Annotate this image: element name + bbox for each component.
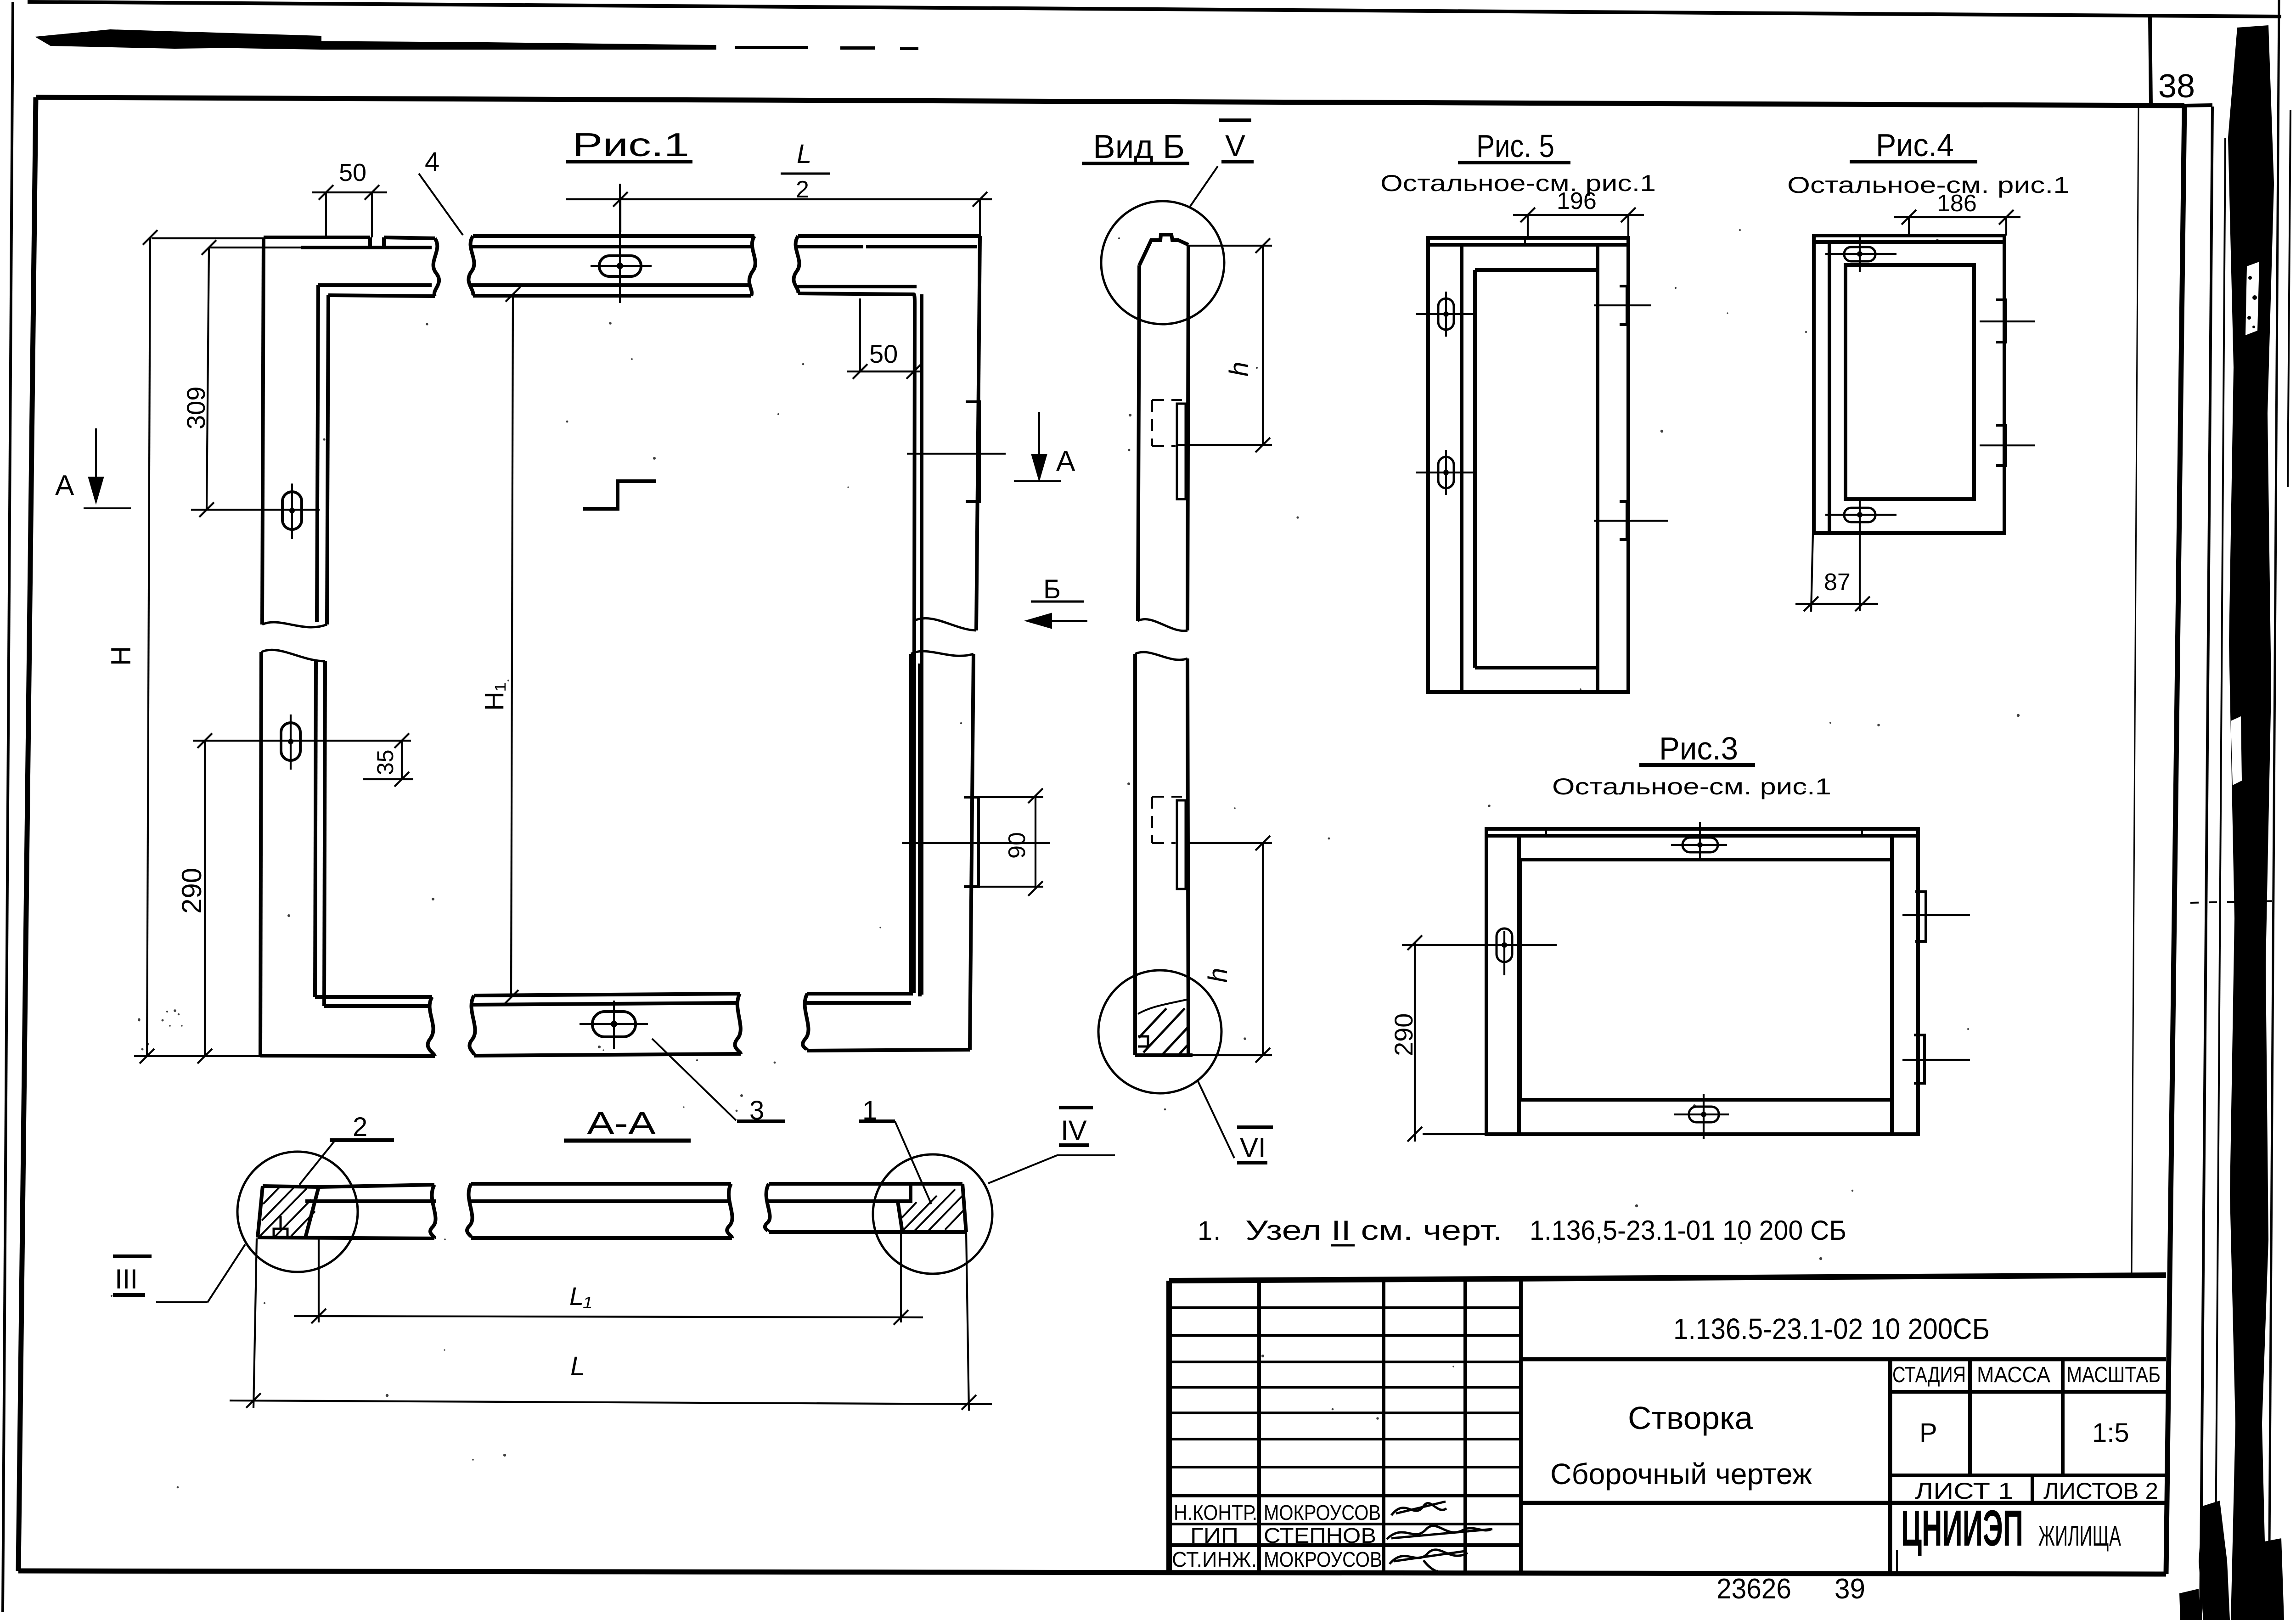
title block stadia column <box>1888 1359 1892 1572</box>
Рис.3 oval slot top centerlines <box>1671 822 1727 861</box>
svg-text:h: h <box>1224 362 1254 377</box>
Рис.5 oval slot lower centerlines <box>1416 450 1473 495</box>
svg-text:А-А: А-А <box>587 1105 656 1141</box>
Рис.1 dim 309 <box>199 240 303 517</box>
А-А bar left hatched end <box>258 1186 319 1237</box>
Рис.1 oval slot top rail centerlines <box>591 184 652 303</box>
svg-text:50: 50 <box>869 339 898 368</box>
svg-text:Рис.4: Рис.4 <box>1876 127 1954 163</box>
sheet number box divider <box>2150 16 2151 105</box>
Рис.1 top rail middle piece left break <box>468 236 474 296</box>
Рис.1 left stile lower piece <box>260 650 325 1056</box>
svg-text:L: L <box>570 1351 585 1381</box>
Рис.1 oval slot top rail <box>599 256 641 276</box>
detail marker IV leader shoulder <box>988 1155 1115 1183</box>
title block list divider <box>2031 1475 2034 1503</box>
Рис.1 dim H <box>134 230 264 1063</box>
right binding thin line 2 <box>2215 138 2225 1620</box>
Рис.1 left stile lower break <box>261 650 325 661</box>
svg-text:h: h <box>1203 968 1233 983</box>
svg-text:Остальное-см. рис.1: Остальное-см. рис.1 <box>1552 774 1831 799</box>
detail circle IV <box>873 1154 992 1274</box>
title block stadia verticals <box>1970 1359 2063 1475</box>
Рис.1 top rail right piece <box>793 236 980 995</box>
Рис.1 right stile lower piece <box>911 651 974 1050</box>
Вид Б bottom section hatching <box>1139 1008 1188 1055</box>
Рис.5 dim 196 <box>1513 208 1644 238</box>
outer page border top <box>28 2 2281 17</box>
svg-text:ЛИСТОВ 2: ЛИСТОВ 2 <box>2043 1478 2158 1504</box>
Рис.1 left stile upper break <box>262 622 327 627</box>
Рис.1 oval slot left stile upper centerlines <box>191 484 320 539</box>
right binding short line 4 <box>2288 110 2290 487</box>
Рис.5 oval slot upper centerlines <box>1416 292 1473 337</box>
А-А bar middle piece <box>467 1184 732 1238</box>
Вид Б profile top outline <box>1139 235 1188 265</box>
svg-text:МОКРОУСОВ: МОКРОУСОВ <box>1264 1547 1382 1571</box>
svg-text:СТАДИЯ: СТАДИЯ <box>1892 1363 1966 1387</box>
outer page border left <box>3 2 13 1612</box>
Рис.5 sash opening <box>1475 270 1598 668</box>
svg-text:Б: Б <box>1043 574 1061 604</box>
section mark А left arrow <box>84 428 131 508</box>
title block signature 2 <box>1387 1526 1492 1539</box>
svg-text:Рис.1: Рис.1 <box>572 127 689 163</box>
svg-text:L: L <box>797 139 811 169</box>
svg-text:VI: VI <box>1240 1132 1266 1163</box>
svg-text:50: 50 <box>339 159 366 186</box>
Рис.4 oval slot bottom <box>1844 508 1875 522</box>
Рис.1 dim 50 top-right <box>847 298 923 379</box>
Рис.3 top joint ticks <box>1546 829 1862 836</box>
svg-text:Вид Б: Вид Б <box>1093 129 1185 165</box>
Вид Б lower piece edges <box>1135 654 1188 1055</box>
right binding band blob top <box>2245 262 2259 335</box>
Рис.3 sash outer frame <box>1486 829 1918 1134</box>
А-А bar left piece <box>258 1185 436 1238</box>
svg-text:Остальное-см. рис.1: Остальное-см. рис.1 <box>1787 172 2070 198</box>
А-А title underline <box>564 1139 691 1143</box>
Рис.4 hinge upper <box>1996 300 2006 342</box>
Рис.5 top joint tick <box>1524 238 1526 245</box>
Рис.1 bottom rail right piece break <box>803 994 808 1051</box>
Рис.1 bottom rail middle piece left break <box>469 996 475 1056</box>
right binding bottom blotches <box>2199 1501 2230 1620</box>
svg-text:ЦНИИЭП: ЦНИИЭП <box>1901 1500 2023 1557</box>
svg-text:290: 290 <box>1389 1013 1418 1056</box>
Рис.3 hinge upper <box>1915 892 1926 941</box>
Вид Б dim h upper <box>1178 238 1272 452</box>
Рис.5 hinge lower centerline <box>1594 520 1668 522</box>
Рис.1 top rail middle piece <box>468 236 755 296</box>
svg-text:87: 87 <box>1824 569 1851 596</box>
section mark Б arrow <box>1027 614 1087 628</box>
Рис.4 oval slot bottom centerlines <box>1825 498 1896 611</box>
Рис.5 hinge upper centerline <box>1594 304 1651 306</box>
Рис.1 title underline <box>566 160 692 163</box>
Рис.1 dim 90 <box>979 788 1043 896</box>
Рис.5 hinge upper <box>1620 286 1627 325</box>
title block stadia header row <box>1890 1390 2166 1394</box>
archive tick <box>1896 1550 1898 1574</box>
Рис.1 bottom rail middle piece right break <box>735 994 741 1054</box>
Рис.1 top rail middle piece right break <box>749 236 755 296</box>
section mark Б underline <box>1031 601 1084 603</box>
Рис.1 bottom rail left piece <box>260 997 435 1056</box>
А-А bar right hatching <box>902 1189 965 1232</box>
Рис.4 sash opening <box>1846 265 1974 499</box>
Вид Б bottom section hatch boundary <box>1138 999 1188 1014</box>
svg-text:А: А <box>1056 445 1075 477</box>
Рис.1 dim 35 <box>363 733 413 787</box>
top-left scan smudge <box>35 29 321 49</box>
А-А right piece left break <box>765 1184 770 1232</box>
Вид Б upper latch dashed box <box>1152 400 1182 446</box>
right binding heavy band <box>2228 25 2274 1620</box>
svg-text:СТ.ИНЖ.: СТ.ИНЖ. <box>1172 1547 1257 1571</box>
drawing frame bottom <box>18 1571 2166 1574</box>
Рис.1 hinge upper centerline <box>907 453 1006 455</box>
Рис.3 oval slot bottom centerlines <box>1674 1094 1729 1139</box>
Рис.1 center step symbol <box>583 481 656 509</box>
А-А bar left hatching <box>260 1187 315 1237</box>
title block signature 1 <box>1391 1502 1446 1515</box>
А-А middle piece left break <box>467 1184 473 1238</box>
title block left grid rows <box>1169 1308 1521 1545</box>
Вид Б upper piece edges <box>1138 245 1188 630</box>
Рис.4 hinge upper centerline <box>1980 321 2035 322</box>
Рис.3 oval slot left centerlines <box>1402 931 1557 975</box>
Рис.1 dim 290 <box>197 733 212 1063</box>
А-А bar right piece <box>765 1184 962 1232</box>
detail marker V leader <box>1189 166 1218 208</box>
svg-text:А: А <box>55 470 74 501</box>
title block name cell divider <box>1521 1501 2166 1505</box>
Рис.5 hinge lower <box>1620 501 1627 540</box>
Рис.1 right stile lower break <box>911 651 974 656</box>
svg-text:38: 38 <box>2158 68 2195 105</box>
note II underline <box>1331 1244 1355 1247</box>
Вид Б upper latch solid strip <box>1177 404 1186 499</box>
Рис.1 oval slot left stile lower <box>281 723 300 760</box>
Рис.3 hinge lower centerline <box>1902 1059 1970 1061</box>
Вид Б upper piece break <box>1138 619 1187 630</box>
right binding thin line 3 <box>2269 0 2279 1620</box>
svg-text:Н.КОНТР.: Н.КОНТР. <box>1174 1501 1257 1524</box>
svg-text:Створка: Створка <box>1628 1400 1753 1436</box>
svg-text:309: 309 <box>181 387 210 429</box>
Рис.1 top rail right piece left break <box>793 236 799 293</box>
Рис.1 dim H1 <box>504 287 520 1005</box>
Рис.3 oval slot bottom <box>1689 1107 1719 1122</box>
Рис.3 sash opening <box>1520 860 1892 1100</box>
detail marker VI leader <box>1198 1080 1234 1158</box>
scan artifact vertical line inside frame <box>2132 108 2138 1277</box>
drawing frame top <box>36 97 2184 106</box>
right binding thin line 1 <box>2200 107 2212 1620</box>
Рис.5 title underline <box>1458 161 1570 164</box>
svg-text:Сборочный чертеж: Сборочный чертеж <box>1550 1457 1812 1491</box>
Рис.1 hinge lower on right stile <box>964 797 979 887</box>
svg-text:МАССА: МАССА <box>1977 1363 2050 1387</box>
svg-text:1.136,5-23.1-01 10 200 СБ: 1.136,5-23.1-01 10 200 СБ <box>1530 1215 1846 1246</box>
Рис.1 left stile upper piece <box>262 237 328 627</box>
svg-text:90: 90 <box>1004 832 1030 859</box>
svg-text:Остальное-см. рис.1: Остальное-см. рис.1 <box>1380 170 1656 196</box>
svg-text:290: 290 <box>176 868 207 914</box>
svg-text:L₁: L₁ <box>569 1282 592 1311</box>
Вид Б dim h lower <box>1187 836 1272 1063</box>
svg-text:III: III <box>115 1264 138 1294</box>
svg-text:2: 2 <box>353 1112 367 1142</box>
svg-text:1:5: 1:5 <box>2092 1418 2129 1448</box>
title block outer box <box>1169 1275 2166 1572</box>
title block signature 3 <box>1390 1550 1468 1571</box>
Рис.3 dim 290 <box>1407 935 1486 1142</box>
title block left grid verticals <box>1259 1279 1521 1572</box>
Рис.5 oval slot upper <box>1438 298 1454 330</box>
А-А bar left piece break <box>430 1185 436 1238</box>
svg-text:Рис. 5: Рис. 5 <box>1476 128 1554 164</box>
А-А label 2 leader <box>299 1140 335 1185</box>
Рис.1 oval slot left stile lower centerlines <box>193 714 411 770</box>
section mark А right arrow <box>1014 412 1061 481</box>
А-А bar right hatched end <box>898 1184 966 1232</box>
svg-text:4: 4 <box>425 147 439 177</box>
svg-text:Узел II см. черт.: Узел II см. черт. <box>1245 1215 1503 1246</box>
Рис.3 title underline <box>1639 763 1755 767</box>
Рис.3 hinge upper centerline <box>1902 914 1970 916</box>
Рис.1 oval slot left stile upper <box>282 492 302 529</box>
svg-text:196: 196 <box>1557 188 1597 214</box>
svg-text:Рис.3: Рис.3 <box>1659 731 1738 766</box>
Рис.1 oval slot bottom rail centerlines <box>580 1001 648 1049</box>
Рис.1 top-right corner inner lines <box>914 294 915 993</box>
Рис.1 dim 50 top-left <box>312 185 387 237</box>
svg-text:23626: 23626 <box>1716 1573 1791 1605</box>
detail marker III leader <box>156 1244 245 1302</box>
svg-text:1.: 1. <box>1198 1216 1221 1246</box>
Рис.1 bottom rail middle piece <box>469 994 741 1056</box>
right binding band speckle gap <box>2231 716 2242 785</box>
svg-text:МАСШТАБ: МАСШТАБ <box>2066 1363 2161 1387</box>
Рис.4 oval slot top <box>1844 247 1875 261</box>
Рис.1 right stile outer edge upper <box>976 236 980 630</box>
Рис.4 sash outer frame <box>1814 236 2004 533</box>
Рис.5 oval slot lower <box>1438 457 1454 488</box>
svg-text:IV: IV <box>1061 1115 1087 1146</box>
svg-text:1.136.5-23.1-02 10 200СБ: 1.136.5-23.1-02 10 200СБ <box>1673 1312 1990 1345</box>
title block doc row divider <box>1521 1357 2166 1361</box>
А-А dim L <box>230 1232 992 1411</box>
Рис.3 oval slot left <box>1497 928 1512 962</box>
Рис.1 hinge lower centerline <box>902 842 1050 844</box>
Рис.4 hinge lower <box>1996 425 2006 466</box>
Вид Б profile top h extension <box>1188 245 1272 247</box>
Вид Б lower latch solid strip <box>1177 800 1186 889</box>
Вид Б title underline <box>1082 162 1189 165</box>
Рис.3 oval slot top <box>1683 838 1718 852</box>
Рис.3 hinge lower <box>1914 1035 1925 1083</box>
Рис.1 top rail left piece <box>264 237 439 296</box>
svg-text:Н: Н <box>106 646 136 666</box>
title block list row top <box>1890 1474 2166 1477</box>
scan artifact dashed line <box>2190 901 2280 903</box>
detail circle V <box>1101 201 1224 324</box>
Вид Б bottom notch <box>1138 1036 1148 1046</box>
svg-text:39: 39 <box>1835 1573 1865 1605</box>
Рис.1 hinge upper on right stile <box>966 402 979 501</box>
Рис.4 dim 186 <box>1894 210 2020 236</box>
svg-text:V: V <box>1225 129 1245 163</box>
А-А dim L1 <box>294 1232 923 1325</box>
drawing frame left <box>18 97 36 1571</box>
svg-text:ЖИЛИЩА: ЖИЛИЩА <box>2038 1520 2121 1552</box>
svg-text:2: 2 <box>796 176 809 203</box>
Рис.1 right stile upper break <box>914 618 976 630</box>
drawing frame right <box>2166 106 2184 1574</box>
Вид Б lower latch dashed box <box>1152 797 1182 843</box>
scan speckle noise <box>111 229 2020 1488</box>
А-А left screw symbol <box>271 1216 290 1237</box>
Рис.1 dim L/2 <box>566 192 992 236</box>
svg-text:186: 186 <box>1937 190 1977 217</box>
Рис.4 dim 87 <box>1795 533 1878 612</box>
svg-text:Н₁: Н₁ <box>479 683 509 711</box>
Рис.1 bottom rail left piece break <box>428 997 435 1056</box>
detail circle VI <box>1098 970 1221 1093</box>
А-А label 1 leader <box>895 1121 931 1204</box>
svg-text:35: 35 <box>372 749 398 775</box>
Рис.1 oval slot bottom rail <box>592 1012 636 1037</box>
А-А middle piece right break <box>727 1184 732 1238</box>
Рис.4 oval slot top centerlines <box>1825 237 1896 272</box>
svg-text:ГИП: ГИП <box>1190 1524 1238 1547</box>
Рис.1 bottom rail right piece <box>803 994 970 1051</box>
Рис.1 top rail left piece break line <box>433 238 439 296</box>
Рис.1 label 4 leader <box>419 174 463 235</box>
Рис.4 title underline <box>1850 160 1977 163</box>
detail circle III <box>237 1152 358 1272</box>
Вид Б bottom edge <box>1135 1053 1193 1057</box>
svg-text:СТЕПНОВ: СТЕПНОВ <box>1264 1524 1376 1547</box>
Рис.4 hinge lower centerline <box>1980 444 2035 446</box>
svg-text:МОКРОУСОВ: МОКРОУСОВ <box>1264 1501 1381 1524</box>
Рис.1 label 3 leader <box>652 1039 736 1120</box>
svg-text:Р: Р <box>1919 1418 1937 1448</box>
Вид Б lower piece break <box>1135 652 1187 660</box>
Рис.5 sash outer frame <box>1428 238 1628 692</box>
